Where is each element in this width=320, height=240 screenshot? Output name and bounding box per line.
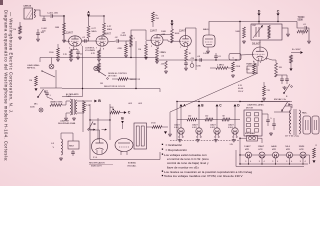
capacitor C4 coupling 0.01	[82, 37, 86, 43]
wire sec top to arrow	[77, 101, 84, 102]
wire C1 to grid node	[53, 15, 65, 17]
wire node D stem	[258, 16, 260, 24]
caption line 2 (rotated)	[9, 12, 14, 114]
power transformer T4	[289, 109, 300, 135]
svg-text:R-405: R-405	[121, 35, 127, 37]
transformer T2 mic-line	[66, 96, 77, 115]
resistor R2 at left edge	[13, 26, 21, 34]
variable capacitor C9 in box	[252, 25, 263, 38]
wire heater left risers	[239, 138, 241, 164]
tube V5 6AU6 box envelope	[203, 28, 215, 47]
svg-text:= Reproducción: = Reproducción	[166, 148, 188, 152]
ground below heater H4	[232, 139, 236, 142]
svg-text:470K: 470K	[117, 48, 122, 50]
wire node C stem	[277, 16, 279, 22]
heater bottom bus	[240, 163, 308, 165]
label MIC	[30, 104, 38, 109]
ground below R9	[144, 56, 148, 59]
svg-text:llave de monitor en «E»: llave de monitor en «E»	[167, 165, 199, 169]
svg-text:CAMBIO NIVEL: CAMBIO NIVEL	[50, 101, 63, 104]
svg-text:— Westinghouse Electric Corpor: — Westinghouse Electric Corporation, N. …	[9, 12, 14, 114]
horizontal y120 left	[90, 119, 110, 121]
resistor R27 line dropper	[313, 145, 318, 158]
svg-text:1M: 1M	[138, 49, 141, 51]
speaker jack P2 box	[312, 116, 319, 134]
wire node A to R3	[88, 17, 90, 26]
vertical line x90	[89, 104, 91, 140]
wire jack X2 stub	[51, 58, 53, 65]
svg-text:V-401: V-401	[174, 127, 179, 129]
volume control label	[85, 48, 96, 53]
wire R2 top stub	[19, 22, 21, 26]
ground below T2 sec	[72, 117, 76, 120]
svg-text:ENCLAVAM.: ENCLAVAM.	[245, 132, 256, 135]
heater tube H4	[228, 124, 238, 139]
capacitor C5 coupling 0.02	[115, 37, 119, 43]
ground below C2	[36, 38, 40, 41]
svg-text:4: 4	[178, 137, 179, 139]
heater string series wires	[240, 154, 246, 156]
jack X2 with cross	[49, 64, 54, 69]
ground below R1	[62, 39, 66, 42]
resistor R10 V3 cathode	[156, 48, 165, 60]
capacitor C14 motor	[266, 114, 272, 126]
wire C4 to V2 grid	[86, 40, 96, 42]
rectifier label	[89, 162, 113, 168]
node B+ arrow right	[292, 49, 303, 54]
ground below R16	[242, 40, 246, 43]
wire V5 cathode	[207, 47, 209, 50]
svg-text:4: 4	[277, 161, 278, 163]
label TO SPKR	[66, 93, 79, 96]
ground below heater H3	[214, 139, 218, 142]
svg-text:MEG: MEG	[92, 31, 97, 33]
wire R11 top to node	[171, 26, 173, 29]
resistor R15 in box fine	[268, 26, 270, 39]
wire R24 left	[147, 126, 153, 128]
vertical line x110	[109, 104, 111, 140]
svg-text:3: 3	[259, 161, 260, 163]
wire R5 to V2 plate	[103, 35, 105, 37]
label stack left of V3	[161, 31, 167, 58]
svg-text:BOBINA: BOBINA	[128, 162, 136, 165]
wire T4 top left	[285, 106, 291, 110]
svg-text:DE TONO: DE TONO	[108, 76, 117, 78]
wire R3 to V1 plate	[82, 38, 89, 41]
speaker jack P1 box	[302, 112, 311, 135]
wire fuse left	[240, 137, 247, 139]
resistor R28 under V6	[246, 64, 255, 74]
resistor R29 extra column	[49, 48, 59, 58]
heater tube H3	[210, 124, 220, 139]
svg-text:5: 5	[183, 137, 184, 139]
resistor R23 sec load	[83, 102, 91, 112]
switch SW2 monitor	[283, 84, 292, 98]
arrow down below R20	[35, 88, 38, 91]
wire V6 plate up	[259, 40, 261, 47]
svg-text:LLAVE ENC.-APAG.: LLAVE ENC.-APAG.	[247, 104, 265, 107]
capacitor C7 0.05 on bus	[197, 56, 201, 62]
svg-text:HTR: HTR	[245, 149, 250, 151]
wire C10 to gnd	[306, 28, 309, 40]
wire x90 drop	[89, 140, 91, 160]
ground motor caps	[269, 132, 273, 135]
heater dropping bus y119.5	[177, 116, 240, 121]
svg-text:RELE: RELE	[69, 146, 75, 148]
wire motor links	[262, 113, 268, 115]
ground below R10	[155, 60, 159, 63]
svg-text:1M: 1M	[29, 80, 32, 82]
node C supply arrow	[277, 9, 280, 16]
jack X3 mic	[39, 108, 43, 112]
switch SW1 arm	[98, 71, 108, 80]
node B supply arrow above R11	[171, 19, 174, 26]
svg-text:68: 68	[223, 116, 225, 118]
svg-text:1M: 1M	[13, 29, 16, 31]
tube V2 12AX7 second amp	[96, 33, 112, 51]
tube V6 50L6 output	[252, 43, 268, 65]
wire heater H3 top	[216, 120, 218, 128]
vertical feed x82	[82, 46, 84, 97]
ground below filter caps	[283, 86, 287, 89]
label 0.003 cluster	[128, 103, 143, 105]
svg-text:1M: 1M	[100, 83, 103, 85]
heater string tube S4	[285, 146, 292, 163]
svg-text:2.7K: 2.7K	[63, 54, 68, 56]
wire caps top join	[276, 75, 287, 77]
power transformer box T3	[134, 123, 147, 149]
capacitor C13 small cluster	[45, 90, 51, 97]
junction x196 bus	[195, 59, 196, 60]
resistor R21 tone series	[118, 78, 128, 81]
ground below R7	[124, 54, 128, 57]
wire sw frame b	[40, 87, 62, 89]
wire heater H1 top	[180, 120, 182, 128]
svg-text:150 V: 150 V	[238, 91, 244, 93]
wire head to coupling cap	[34, 10, 50, 16]
photo corner mark	[0, 0, 3, 5]
tube V9 35W4 rectifier	[92, 139, 108, 159]
svg-text:3: 3	[272, 161, 273, 163]
resistor R22 series mic	[50, 101, 63, 107]
svg-text:MEG: MEG	[107, 29, 112, 31]
wire heater H4 top	[234, 120, 236, 128]
ground below R29	[56, 58, 60, 61]
top rail y21.5	[240, 21, 297, 23]
pot label 500K top right	[298, 16, 305, 22]
svg-text:2: 2	[69, 48, 70, 50]
svg-text:4: 4	[305, 161, 306, 163]
svg-text:C-417: C-417	[203, 53, 209, 55]
wire R13 right	[228, 67, 233, 69]
svg-text:8: 8	[260, 62, 261, 64]
switch SW6 interlock arm	[88, 122, 96, 131]
svg-text:10M: 10M	[55, 27, 59, 29]
vertical feed x196	[195, 28, 197, 70]
capacitor C6 below V4	[184, 61, 188, 67]
wire V6 grid from x240	[240, 54, 253, 57]
ground below R6	[97, 58, 101, 61]
node C up arrow on heater bus	[216, 104, 223, 108]
svg-text:4: 4	[196, 137, 197, 139]
heater string tube S1	[244, 145, 251, 163]
svg-text:4.7K: 4.7K	[91, 53, 96, 55]
svg-text:6AU6: 6AU6	[271, 145, 277, 148]
svg-text:3: 3	[245, 161, 246, 163]
resistor R7 0.47M	[117, 44, 127, 54]
svg-text:6AU6: 6AU6	[203, 28, 209, 31]
wire grid node down	[63, 16, 65, 23]
svg-text:5: 5	[266, 59, 267, 61]
wire node A stem to bus	[180, 106, 182, 119]
svg-text:500K: 500K	[30, 107, 35, 109]
wire sec to B arrow	[84, 100, 92, 102]
junction dots on buses	[63, 15, 278, 164]
wire heater gnd stub	[169, 112, 171, 133]
potentiometer P1 volume	[97, 63, 101, 71]
label linea left	[230, 144, 234, 146]
svg-text:1: 1	[81, 45, 82, 47]
record-play head J1	[23, 5, 35, 20]
switch SW5 power	[281, 102, 290, 111]
resistor R11 V3 plate supply	[171, 29, 180, 43]
wire sw frame a	[55, 70, 57, 88]
wire R30 top	[263, 82, 265, 86]
wire heater series segment	[252, 154, 260, 156]
ground top right	[307, 40, 311, 43]
resistor R1 grid leak	[55, 23, 66, 35]
svg-text:D: D	[258, 9, 261, 13]
svg-text:C: C	[128, 111, 131, 115]
heater left drop x177	[176, 102, 178, 141]
wire V3 grid feed	[146, 30, 151, 40]
vertical line x98	[97, 118, 99, 140]
potentiometer P2 bias	[110, 107, 120, 114]
svg-text:SEGURIDAD GRAB.: SEGURIDAD GRAB.	[58, 122, 76, 125]
capacitor C17 0.005	[161, 61, 168, 69]
svg-text:SELECTOR DE CICLOS: SELECTOR DE CICLOS	[104, 86, 126, 88]
jack symbol X1 volume shaft	[94, 66, 98, 70]
capacitor C15 motor	[272, 118, 276, 130]
output label	[127, 162, 137, 168]
svg-text:3: 3	[286, 161, 287, 163]
capacitor can C16	[190, 61, 194, 67]
wire R8 bottom down	[130, 47, 132, 58]
wire x82 to left	[62, 96, 83, 98]
svg-text:V-404: V-404	[228, 127, 233, 129]
capacitor C10 top right	[303, 24, 307, 30]
svg-text:6.8K: 6.8K	[197, 66, 202, 68]
ground below C6	[184, 67, 188, 70]
svg-text:OSC: OSC	[252, 25, 257, 27]
wire B+ feed	[291, 52, 300, 54]
ground below V5	[206, 50, 210, 53]
wire V6 cathode	[257, 61, 259, 66]
svg-text:250V: 250V	[161, 52, 167, 54]
label 47K near R12	[191, 58, 195, 60]
svg-text:4: 4	[232, 137, 233, 139]
node A up arrow on heater bus	[180, 104, 187, 108]
svg-text:TRANS. SAL.: TRANS. SAL.	[246, 63, 258, 66]
svg-text:OSCILAD.: OSCILAD.	[127, 165, 137, 168]
svg-text:LIN.: LIN.	[230, 144, 234, 146]
wire heater series segment	[293, 154, 301, 156]
wire R28 stub	[253, 61, 255, 64]
svg-text:470K: 470K	[236, 66, 241, 68]
svg-text:B: B	[171, 19, 174, 23]
heater tube H1	[174, 124, 184, 139]
svg-text:HTR: HTR	[299, 149, 304, 151]
ground below osc wire	[286, 33, 290, 36]
wire V1 grid	[64, 16, 69, 41]
svg-text:5: 5	[219, 137, 220, 139]
wire R5 top to node A rail	[89, 16, 105, 23]
wire diag small	[47, 97, 53, 100]
wire R11 to V3 plate	[157, 35, 172, 44]
svg-text:B: B	[98, 99, 101, 103]
heater string tube S5	[299, 146, 306, 163]
label 117V 60 ciclos	[285, 135, 300, 137]
terminal box B3	[229, 54, 241, 61]
resistor R3 plate load 0.27M	[87, 26, 97, 38]
heater string bottom stubs	[248, 158, 304, 164]
label C-417	[203, 53, 209, 55]
ground below T2 primary	[64, 117, 68, 120]
svg-text:8: 8	[103, 49, 104, 51]
ground below heater H1	[178, 139, 182, 142]
wire fuse right	[258, 138, 263, 143]
svg-text:PARL.: PARL.	[302, 112, 308, 115]
label 6.8K	[197, 66, 202, 68]
ground below heater H2	[196, 139, 200, 142]
notes text block	[164, 143, 253, 178]
vertical feed x136	[135, 41, 137, 79]
node A supply arrow	[87, 10, 90, 17]
svg-text:C-401 .005: C-401 .005	[47, 13, 59, 15]
dashed heater return	[170, 140, 240, 142]
wire cathode to bypass	[71, 50, 78, 52]
oscillator box B1	[251, 24, 282, 40]
wire R9 stub	[145, 41, 147, 44]
svg-text:HTR: HTR	[286, 149, 291, 151]
resistor R8 fine-hatched	[130, 35, 136, 47]
resistor R20 vertical	[29, 76, 37, 86]
svg-text:REPROD.: REPROD.	[27, 67, 36, 69]
wiper arrow b	[102, 129, 108, 131]
wire R24 right	[162, 126, 168, 128]
bus y160 bottom center	[90, 159, 160, 161]
svg-text:RECTIFICADOR: RECTIFICADOR	[89, 162, 105, 165]
output transformer T1 label	[246, 63, 258, 74]
arrow down below R19	[290, 68, 293, 71]
svg-text:MIC: MIC	[34, 104, 38, 106]
svg-text:A: A	[87, 10, 90, 14]
wire V4 plate up	[186, 28, 197, 36]
svg-text:100K: 100K	[161, 31, 167, 33]
coil L1 left column	[51, 139, 62, 155]
svg-text:7: 7	[96, 48, 97, 50]
wire node C stem to bus	[216, 106, 218, 119]
svg-text:12AX7: 12AX7	[258, 145, 265, 148]
resistor R19 B+ dropper	[290, 55, 293, 68]
resistor R18 V6 screen	[275, 63, 283, 77]
svg-text:7: 7	[180, 47, 181, 49]
svg-text:SELECTOR: SELECTOR	[130, 79, 141, 81]
svg-text:117 V 60 c/seg: 117 V 60 c/seg	[285, 135, 300, 137]
wire R10 to bus	[156, 46, 158, 49]
wire V1 cathode down	[73, 47, 75, 50]
svg-text:4: 4	[291, 161, 292, 163]
svg-text:1 M: 1 M	[122, 33, 126, 35]
wire right rail from C	[297, 22, 304, 29]
svg-text:= Grabación: = Grabación	[166, 143, 183, 147]
junction grid node	[63, 15, 64, 16]
wire R21 left	[112, 78, 118, 80]
resistor R17 tone	[297, 30, 308, 34]
ground below C3	[76, 56, 80, 59]
wire to hatched resistor	[126, 40, 131, 42]
wire rect top	[90, 130, 100, 139]
svg-text:HTR: HTR	[272, 149, 277, 151]
ground below R2	[18, 36, 22, 39]
ground below R4	[69, 58, 73, 61]
switch SW4 mic	[37, 89, 46, 98]
wire x240 vertical	[239, 22, 241, 61]
wire V3 plate to V4 grid	[163, 40, 180, 41]
capacitor C18 small	[42, 16, 46, 20]
capacitor C2 input bypass	[36, 29, 45, 38]
small box B2	[68, 141, 79, 149]
node B arrow right	[94, 99, 101, 103]
svg-text:T-401: T-401	[66, 96, 71, 98]
svg-text:12AX7: 12AX7	[244, 145, 251, 148]
ground heater left	[168, 133, 172, 136]
heater string tube S2	[258, 145, 265, 163]
long bus upper-left y57	[40, 58, 240, 61]
wire bus drop x40	[39, 58, 41, 63]
resistor R9 V3 grid	[138, 44, 147, 56]
resistor R25 supply tap	[152, 12, 160, 22]
arrow below R27	[313, 160, 316, 163]
resistor R4 V1 cathode	[63, 50, 73, 58]
ground below R14	[231, 74, 235, 77]
long diagonal wire to heater bus	[170, 73, 258, 112]
wire heater left riser 2	[235, 150, 237, 167]
wire node B stem to bus	[198, 106, 200, 119]
resistor R13 1MEG	[216, 65, 228, 70]
wire V2 cathode	[99, 48, 101, 51]
tone control text rows	[104, 73, 141, 88]
svg-text:C: C	[277, 9, 280, 13]
svg-text:MOTOR: MOTOR	[246, 108, 254, 110]
svg-text:VOLUMEN: VOLUMEN	[85, 50, 95, 52]
wire motor to transformer	[274, 111, 291, 113]
wire V6 to R18	[266, 58, 276, 63]
notes bullets	[162, 144, 163, 177]
wire R25 stub	[152, 22, 154, 27]
svg-text:3: 3	[300, 161, 301, 163]
wire V1 plate to C4	[82, 40, 84, 42]
resistor R30 in power box	[263, 86, 271, 96]
resistor R24 2700	[151, 123, 162, 129]
wire sec bottom	[77, 112, 84, 113]
svg-text:5: 5	[201, 137, 202, 139]
svg-text:35W4 117V: 35W4 117V	[91, 165, 102, 167]
label R-405 cluster	[121, 33, 127, 38]
svg-text:TONO: TONO	[298, 16, 305, 19]
svg-text:4: 4	[264, 161, 265, 163]
label 1M volumen	[100, 83, 103, 85]
